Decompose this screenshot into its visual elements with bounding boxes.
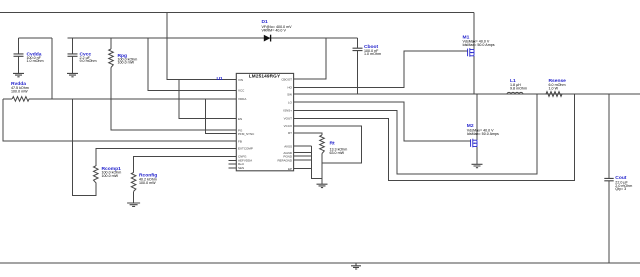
svg-text:SW: SW <box>287 92 292 96</box>
transistor M2 <box>471 139 477 148</box>
ground symbol chip AGND <box>317 184 328 187</box>
pin stub AEFVDDA <box>229 159 237 161</box>
svg-text:REFAGND: REFAGND <box>277 158 292 162</box>
label Cboot <box>364 44 381 56</box>
svg-text:IdsMax= 50.0 Amps: IdsMax= 50.0 Amps <box>467 132 499 136</box>
capacitor Cout <box>604 178 613 180</box>
svg-text:SEN: SEN <box>238 166 244 170</box>
svg-text:100.0 mW: 100.0 mW <box>139 181 156 185</box>
svg-text:100.0 mW: 100.0 mW <box>102 174 119 178</box>
wire Cout bottom lead <box>608 181 610 263</box>
wire Cboot top lead <box>357 38 359 48</box>
IC U1 LM25149RGY body <box>236 73 293 170</box>
svg-text:EP: EP <box>288 167 292 171</box>
wire M1 drain <box>473 13 475 50</box>
wire EXTCOMP to Rcomp1 <box>96 148 237 166</box>
wire CNFG to Rconfig <box>134 156 237 172</box>
svg-text:VCC: VCC <box>238 89 245 93</box>
label D1 <box>262 19 293 32</box>
label Cvdda <box>27 51 44 63</box>
label Cout <box>615 175 632 191</box>
svg-text:EN: EN <box>238 117 242 121</box>
wire VDDA top rail <box>19 37 52 39</box>
wire VCC rail <box>68 37 358 39</box>
svg-text:1.0 W: 1.0 W <box>549 86 559 90</box>
wire EN branch from VIN <box>179 80 237 119</box>
label Rconfig <box>139 173 157 185</box>
capacitor Cboot <box>353 48 363 50</box>
wire HO to M1 gate <box>294 51 468 87</box>
wire gnd bus vertical <box>312 146 323 178</box>
wire Rpg bottom lead to PG pin <box>111 68 236 131</box>
wire VCC drop to VCC pin <box>148 38 236 90</box>
svg-text:Rt: Rt <box>330 140 336 146</box>
wire ISNS+ sense <box>294 94 537 174</box>
wire RT to Rt <box>294 133 322 135</box>
ground symbol below Cvdda <box>13 73 24 76</box>
svg-text:9.8 mOhm: 9.8 mOhm <box>510 86 527 90</box>
label Rpg <box>118 53 138 65</box>
wire VCCX return <box>294 126 362 163</box>
wire LO to M2 gate <box>294 102 471 141</box>
wire Rpg top lead <box>110 38 112 49</box>
wire Cvdda bottom lead <box>18 57 20 74</box>
svg-text:1.0 mOhm: 1.0 mOhm <box>364 52 381 56</box>
label M2 <box>467 123 499 136</box>
ground symbol M2 source <box>472 164 483 167</box>
svg-text:LM25149RGY: LM25149RGY <box>249 74 281 79</box>
wire VIN rail drop to VIN pin <box>167 13 236 80</box>
inductor L1 <box>507 92 523 94</box>
wire VDDA line to pin <box>3 98 12 100</box>
label Rt <box>330 140 348 155</box>
svg-text:9.0 mOhm: 9.0 mOhm <box>80 59 97 63</box>
label Rsense <box>549 78 567 91</box>
svg-text:AVSS: AVSS <box>284 144 292 148</box>
svg-text:LO: LO <box>288 101 293 105</box>
svg-text:EXTCOMP: EXTCOMP <box>238 147 253 151</box>
svg-text:VCCX: VCCX <box>284 124 292 128</box>
pin stub ReU <box>229 163 237 165</box>
label M1 <box>463 34 495 47</box>
svg-text:IdsMax= 50.0 Amps: IdsMax= 50.0 Amps <box>463 43 495 47</box>
wire Cout top lead <box>608 94 610 178</box>
wire PFM_SYNC from VDDA <box>205 99 236 134</box>
wire VOUT sense <box>294 94 575 180</box>
svg-text:1.0 mOhm: 1.0 mOhm <box>27 59 44 63</box>
wire AVSS <box>294 145 312 147</box>
wire Cvdda top lead <box>18 38 20 54</box>
svg-text:CBOOT: CBOOT <box>281 77 292 81</box>
wire CBOOT pin to rail <box>294 38 326 79</box>
svg-text:U1: U1 <box>217 76 224 82</box>
svg-text:VOUT: VOUT <box>284 117 293 121</box>
label Rcomp1 <box>102 166 122 178</box>
wire Cvcc top lead <box>72 38 74 54</box>
svg-text:VIN: VIN <box>238 78 243 82</box>
label Cvcc <box>80 51 97 63</box>
resistor Rcomp1 <box>94 166 99 183</box>
wire Cboot bottom lead to SW <box>357 51 359 94</box>
ground symbol below Cvcc <box>67 73 78 76</box>
wire PGND <box>294 155 312 157</box>
resistor Rconfig <box>131 172 136 191</box>
resistor Rvdda <box>12 97 29 102</box>
svg-text:100.0 mW: 100.0 mW <box>11 89 28 93</box>
resistor Rsense <box>546 92 562 97</box>
resistor Rt <box>320 135 325 154</box>
wire EP <box>294 168 312 170</box>
svg-text:VRRM= 40.0 V: VRRM= 40.0 V <box>262 28 287 32</box>
wire AGND <box>294 152 312 154</box>
svg-text:ISNS+: ISNS+ <box>283 109 292 113</box>
wire REFAGND <box>294 159 312 161</box>
ground symbol bottom rail <box>351 263 361 269</box>
svg-text:Qty= 3: Qty= 3 <box>615 187 626 191</box>
pin stub SEN <box>229 167 237 169</box>
resistor Rpg <box>109 49 114 68</box>
label L1 <box>510 78 527 91</box>
svg-text:VDDA: VDDA <box>238 97 246 101</box>
wire Cvcc bottom lead <box>72 57 74 74</box>
capacitor Cvcc <box>68 54 78 56</box>
wire VDDA rail drop <box>51 38 53 99</box>
svg-text:PFM_SYNC: PFM_SYNC <box>238 132 255 136</box>
wire FB line <box>3 99 236 141</box>
wire M2 source <box>476 146 478 164</box>
transistor M1 <box>468 48 474 57</box>
wire Rt bottom lead <box>321 154 323 185</box>
ground symbol below Rconfig <box>127 203 140 206</box>
svg-text:RT: RT <box>288 131 292 135</box>
diode D1 <box>264 35 271 42</box>
wire SW line <box>294 93 640 95</box>
wire M2 drain <box>476 94 478 140</box>
wire bottom ground rail <box>0 262 640 264</box>
svg-text:FB: FB <box>238 139 242 143</box>
svg-text:100.0 mW: 100.0 mW <box>118 61 135 65</box>
svg-text:63.0 mW: 63.0 mW <box>330 151 345 155</box>
wire comp return from VDDA <box>73 99 96 196</box>
wire M1 source <box>473 56 475 94</box>
wire Rconfig bottom lead <box>133 191 135 202</box>
wire top VIN rail <box>0 12 474 14</box>
svg-text:HO: HO <box>288 86 293 90</box>
capacitor Cvdda <box>14 54 24 56</box>
label Rvdda <box>11 81 29 93</box>
